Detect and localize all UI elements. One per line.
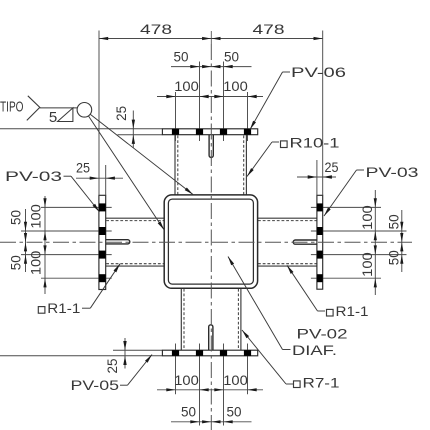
label R1-1 right stiffener: [287, 265, 369, 319]
plate PV-06 (top end plate): [162, 129, 257, 135]
beam PV-06 top hidden dashed: [178, 136, 244, 195]
bottom plate bolts/welds: [172, 350, 251, 356]
svg-text:R10-1: R10-1: [290, 135, 340, 151]
svg-text:50: 50: [227, 403, 242, 419]
column HSS inner wall: [168, 199, 253, 284]
plate PV-06 edge extension lines: [0, 129, 162, 135]
dimension 50 50 top: [171, 49, 252, 69]
beam PV-05 bottom hidden dashed: [184, 289, 238, 350]
beam PV-03 right outline solid: [258, 218, 317, 266]
svg-text:R1-1: R1-1: [336, 303, 369, 319]
svg-text:R1-1: R1-1: [47, 300, 80, 316]
svg-text:50: 50: [8, 210, 24, 225]
svg-text:PV-06: PV-06: [291, 64, 346, 80]
plate PV-03 left end plate: [99, 195, 106, 289]
svg-text:R7-1: R7-1: [303, 375, 340, 391]
dimension 25 bottom plate thickness: [104, 338, 127, 374]
node column vertical centerline: [210, 31, 212, 430]
node column horizontal centerline: [0, 241, 412, 243]
top bolt gage extension lines: [176, 62, 248, 142]
leader TIPO to column face: [88, 116, 164, 230]
beam PV-03 left hidden dashed: [106, 221, 164, 264]
label PV-06 top beam: [250, 64, 346, 130]
svg-text:PV-02: PV-02: [297, 326, 348, 342]
dimension 478 / 478 top: [99, 21, 323, 195]
label PV-02 DIAF diaphragm: [228, 257, 348, 358]
svg-text:25: 25: [104, 358, 120, 373]
svg-text:50: 50: [174, 49, 189, 65]
left plate bolts/welds: [99, 203, 106, 282]
dimension 25 top plate thickness: [113, 106, 135, 148]
svg-text:100: 100: [174, 78, 199, 94]
label PV-03 right beam: [324, 164, 419, 216]
svg-text:TIPO: TIPO: [0, 99, 24, 116]
svg-text:50: 50: [8, 255, 24, 270]
svg-text:25: 25: [113, 106, 129, 121]
dimension 25 left plate thickness: [76, 160, 123, 196]
plate PV-05 (bottom end plate): [162, 350, 257, 356]
svg-text:100: 100: [28, 204, 44, 229]
svg-text:100: 100: [28, 250, 44, 275]
plate PV-03 right end plate: [317, 195, 323, 289]
left bolt gage extension lines: [21, 207, 112, 278]
beam PV-06 top outline solid: [175, 135, 246, 195]
svg-text:478: 478: [140, 21, 172, 37]
svg-text:100: 100: [174, 372, 199, 388]
svg-text:25: 25: [76, 160, 90, 176]
right bolt gage extension lines: [311, 207, 407, 278]
dimension 50 50 left: [8, 209, 28, 272]
label PV-05 bottom beam: [71, 355, 153, 394]
weld symbol TIPO fillet 5mm: [0, 96, 92, 126]
svg-text:25: 25: [325, 159, 339, 175]
slot top diaphragm weld hole: [209, 135, 213, 158]
dimension 100 100 top: [157, 78, 263, 98]
right plate bolts/welds: [317, 203, 323, 282]
bottom bolt gage extension lines: [176, 344, 248, 426]
svg-text:100: 100: [223, 78, 248, 94]
svg-text:PV-05: PV-05: [71, 377, 120, 393]
svg-text:50: 50: [181, 403, 196, 419]
svg-text:100: 100: [359, 252, 375, 277]
label R7-1 bottom stiffener: [242, 330, 340, 391]
label R1-1 left stiffener: [38, 264, 120, 316]
dimension 50 50 right: [386, 210, 404, 272]
slot left diaphragm weld hole: [106, 240, 130, 244]
beam PV-03 right hidden dashed: [258, 221, 317, 264]
svg-text:PV-03: PV-03: [5, 168, 62, 184]
beam PV-03 left outline solid: [106, 218, 165, 266]
label R10-1 top stiffener: [247, 135, 340, 177]
label PV-03 left beam: [5, 168, 100, 212]
svg-text:100: 100: [359, 205, 375, 230]
dimension 100 100 right: [359, 190, 377, 295]
svg-text:50: 50: [386, 250, 402, 265]
svg-text:478: 478: [253, 21, 285, 37]
dimension 100 100 left: [28, 196, 47, 294]
svg-text:100: 100: [223, 372, 248, 388]
column HSS outer wall: [164, 195, 257, 288]
slot right diaphragm weld hole: [293, 240, 317, 244]
dimension 100 100 bottom: [157, 372, 263, 392]
plate PV-05 edge extension lines: [0, 350, 162, 356]
top plate bolts/welds: [172, 129, 251, 135]
svg-text:DIAF.: DIAF.: [292, 342, 337, 358]
svg-text:5: 5: [49, 109, 57, 126]
dimension 25 right plate thickness: [297, 159, 339, 195]
dimension 50 50 bottom: [171, 403, 252, 423]
leader TIPO to column corner: [90, 114, 193, 194]
beam PV-05 bottom outline solid: [181, 288, 241, 350]
svg-text:50: 50: [224, 49, 239, 65]
slot bottom diaphragm weld hole: [209, 325, 213, 350]
svg-text:50: 50: [386, 214, 402, 229]
svg-text:PV-03: PV-03: [366, 164, 419, 180]
